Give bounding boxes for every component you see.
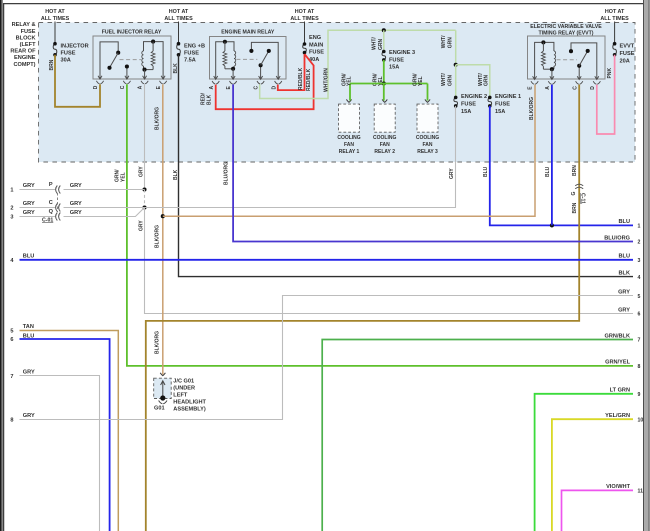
switch arm (fuel injector relay) bbox=[110, 53, 119, 68]
svg-text:INJECTOR: INJECTOR bbox=[61, 44, 89, 50]
svg-text:FUSE: FUSE bbox=[184, 51, 199, 57]
svg-text:BLU: BLU bbox=[483, 166, 489, 177]
pin A (EVVT relay) bbox=[550, 76, 554, 79]
wire feed down from HOT AT x=614.6 bbox=[614, 22, 616, 44]
junction connector J/C G01 box bbox=[154, 378, 172, 398]
wire GRY from fuel injector relay pin A down to node row1 bbox=[144, 84, 146, 189]
wire WHT/GRN to ENGINE 1 fuse bbox=[456, 65, 490, 98]
svg-text:BRN: BRN bbox=[572, 202, 578, 213]
svg-text:C: C bbox=[572, 86, 578, 90]
svg-text:WHT/: WHT/ bbox=[441, 35, 447, 48]
pin A (fuel injector relay) bbox=[143, 76, 147, 79]
svg-text:YEL/GRN: YEL/GRN bbox=[605, 413, 630, 419]
svg-text:ENGINE 3: ENGINE 3 bbox=[389, 50, 415, 56]
svg-text:FUSE: FUSE bbox=[309, 50, 324, 56]
svg-text:8: 8 bbox=[638, 364, 641, 370]
fuse ENGINE 1 FUSE 15A bbox=[488, 97, 492, 106]
svg-text:GRN: GRN bbox=[483, 75, 489, 87]
svg-text:FUSE: FUSE bbox=[620, 51, 635, 57]
cooling fan relay 2 (dashed box) bbox=[374, 104, 395, 132]
svg-text:FAN: FAN bbox=[380, 142, 390, 148]
wire PNK from EVVT fuse to EVVT pin D bbox=[597, 55, 615, 134]
svg-text:C-11: C-11 bbox=[580, 193, 586, 204]
svg-text:A: A bbox=[545, 86, 551, 90]
node: BLK/ORG junction with EVVT BLK/ORG bbox=[161, 214, 165, 218]
svg-text:GRY: GRY bbox=[70, 183, 82, 189]
svg-text:GRN/YEL: GRN/YEL bbox=[605, 360, 630, 366]
svg-text:BLU/ORG: BLU/ORG bbox=[604, 235, 630, 241]
svg-text:WHT/: WHT/ bbox=[372, 37, 378, 50]
switch contact from pin D (engine main relay) bbox=[251, 42, 278, 79]
svg-text:RED/BLK: RED/BLK bbox=[306, 68, 312, 91]
svg-text:GRY: GRY bbox=[23, 201, 35, 207]
wire GRN/YEL from fuel injector relay pin C down, to right row 8 bbox=[127, 84, 633, 366]
mechanical linkage dashes (fuel injector relay) bbox=[120, 59, 142, 61]
pin D (engine main relay) bbox=[276, 76, 280, 79]
wire BLK/ORG from EVVT pin E down and left bbox=[163, 85, 535, 217]
relay coil (fuel injector relay) bbox=[144, 42, 164, 79]
svg-text:C-01: C-01 bbox=[42, 217, 53, 223]
svg-text:(UNDER: (UNDER bbox=[173, 386, 195, 392]
wire YEL/GRN from page bottom up to right row 10 bbox=[552, 419, 633, 531]
svg-text:GRN: GRN bbox=[447, 37, 453, 49]
svg-text:C: C bbox=[120, 85, 126, 89]
node: GRY junction row 1 bbox=[142, 187, 146, 191]
pin A (engine main relay) bbox=[214, 76, 218, 79]
svg-text:7.5A: 7.5A bbox=[184, 58, 196, 64]
svg-text:ENGINE MAIN RELAY: ENGINE MAIN RELAY bbox=[221, 30, 275, 36]
svg-text:8: 8 bbox=[10, 418, 13, 424]
pin C (EVVT relay) bbox=[577, 76, 581, 79]
wire WHT/GRN rail down at right to node bbox=[455, 30, 457, 65]
wire GRN/YEL fan header horizontal bbox=[350, 83, 428, 85]
svg-text:A: A bbox=[138, 85, 144, 89]
svg-text:RELAY &: RELAY & bbox=[12, 22, 36, 28]
fuse INJECTOR FUSE 30A bbox=[53, 44, 57, 55]
svg-text:ALL TIMES: ALL TIMES bbox=[41, 16, 70, 22]
wire GRN/YEL drop to cooling fan relay 2 bbox=[383, 84, 385, 101]
wire VIO/WHT from page bottom up to right row 11 bbox=[562, 490, 634, 531]
pin C (engine main relay) bbox=[259, 76, 263, 79]
pin D (fuel injector relay) bbox=[98, 76, 102, 79]
switch contact pin C pivot (EVVT relay) bbox=[578, 66, 580, 79]
svg-text:BLK/ORG: BLK/ORG bbox=[155, 225, 161, 248]
svg-text:VIO/WHT: VIO/WHT bbox=[606, 484, 631, 490]
svg-text:30A: 30A bbox=[61, 58, 71, 64]
svg-text:GRN: GRN bbox=[447, 75, 453, 87]
relay & fuse block (dashed box) bbox=[39, 23, 636, 163]
svg-text:GRY: GRY bbox=[618, 290, 630, 296]
svg-text:REAR OF: REAR OF bbox=[10, 49, 36, 55]
wire BLU from ENGINE 1 fuse down to right row 1 bbox=[490, 106, 633, 225]
relay coil (EVVT relay) bbox=[535, 42, 554, 79]
svg-text:GRN: GRN bbox=[378, 39, 384, 51]
cooling fan relay 3 (dashed box) bbox=[417, 104, 438, 132]
svg-text:ENG: ENG bbox=[309, 35, 321, 41]
svg-text:EVVT: EVVT bbox=[620, 44, 635, 50]
svg-text:GRY: GRY bbox=[23, 183, 35, 189]
svg-text:YEL: YEL bbox=[121, 172, 127, 182]
pin E (engine main relay) bbox=[231, 76, 235, 79]
pin A stub (fuel injector relay) bbox=[144, 70, 146, 79]
svg-text:D: D bbox=[590, 86, 596, 90]
svg-text:COMPT): COMPT) bbox=[13, 62, 35, 68]
svg-text:YEL: YEL bbox=[347, 76, 353, 86]
wire RED/BLK from ENG MAIN fuse to engine main relay pin A bbox=[216, 54, 314, 109]
wire GRY dashed segment between row1 and row2 nodes bbox=[144, 190, 146, 208]
node: WHT/GRN junction to ENGINE 1/2 fuses bbox=[454, 63, 458, 67]
switch arm (engine main relay) bbox=[261, 51, 269, 65]
svg-text:J/C G01: J/C G01 bbox=[173, 379, 194, 385]
switch contact from pin D (fuel injector relay) bbox=[100, 42, 118, 79]
wire feed down from HOT AT x=55 bbox=[54, 22, 56, 44]
svg-text:1: 1 bbox=[10, 188, 13, 194]
svg-text:FUEL INJECTOR RELAY: FUEL INJECTOR RELAY bbox=[102, 30, 162, 36]
wire GRY from ENGINE 2 fuse down then left to row-2 node bbox=[145, 106, 456, 208]
svg-text:7: 7 bbox=[638, 338, 641, 344]
svg-text:PNK: PNK bbox=[607, 68, 613, 79]
switch contact pin C pivot (engine main relay) bbox=[260, 65, 262, 79]
fuse ENGINE 3 FUSE 15A bbox=[382, 52, 386, 60]
svg-text:FAN: FAN bbox=[344, 142, 354, 148]
svg-text:BLK: BLK bbox=[173, 169, 179, 180]
wire LT GRN from page bottom up to right row 9 bbox=[535, 394, 633, 531]
svg-text:HOT AT: HOT AT bbox=[169, 9, 189, 15]
ground node G01 bbox=[160, 395, 165, 400]
wire GRN/YEL below ENGINE 3 fuse to fan relay header bbox=[383, 60, 385, 84]
svg-text:HEADLIGHT: HEADLIGHT bbox=[173, 400, 206, 406]
node: GRY junction row 2 bbox=[142, 205, 146, 209]
connector C-01 dashed link bbox=[57, 193, 59, 212]
svg-text:FAN: FAN bbox=[423, 142, 433, 148]
svg-text:3: 3 bbox=[638, 258, 641, 264]
wire GRN/YEL drop to cooling fan relay 1 bbox=[349, 84, 351, 101]
svg-text:GRY: GRY bbox=[618, 307, 630, 313]
svg-text:BLOCK: BLOCK bbox=[16, 35, 36, 41]
page right scrollbar bbox=[643, 0, 644, 531]
svg-text:ENGINE: ENGINE bbox=[14, 55, 36, 61]
node: BLU junction with EVVT pin A wire bbox=[550, 223, 554, 227]
svg-text:11: 11 bbox=[638, 489, 644, 495]
svg-text:D: D bbox=[93, 85, 99, 89]
svg-text:BRN: BRN bbox=[572, 165, 578, 176]
svg-text:WHT/GRN: WHT/GRN bbox=[323, 68, 329, 92]
svg-text:GRY: GRY bbox=[70, 201, 82, 207]
svg-text:G01: G01 bbox=[154, 405, 165, 411]
svg-text:ELECTRIC VARIABLE VALVE: ELECTRIC VARIABLE VALVE bbox=[530, 24, 602, 30]
wire BLK/ORG from fuel injector relay pin E down to J/C G01 bbox=[162, 84, 164, 374]
pin C (fuel injector relay) bbox=[125, 76, 129, 79]
svg-text:15A: 15A bbox=[389, 65, 399, 71]
svg-text:YEL: YEL bbox=[418, 76, 424, 86]
svg-text:FUSE: FUSE bbox=[389, 57, 404, 63]
svg-text:BLK: BLK bbox=[619, 270, 631, 276]
svg-text:HOT AT: HOT AT bbox=[605, 9, 625, 15]
wire RED/BLK from ENG MAIN fuse to engine main relay pin D bbox=[278, 54, 305, 90]
page left edge bar bbox=[0, 0, 2, 531]
svg-text:5: 5 bbox=[638, 294, 641, 300]
mechanical linkage dashes (EVVT relay) bbox=[557, 59, 578, 61]
svg-text:D: D bbox=[271, 86, 277, 90]
pin A stub (EVVT relay) bbox=[551, 69, 553, 79]
svg-text:FUSE: FUSE bbox=[61, 51, 76, 57]
svg-text:3: 3 bbox=[10, 215, 13, 221]
svg-text:FUSE: FUSE bbox=[461, 102, 476, 108]
svg-text:ENG +B: ENG +B bbox=[184, 44, 205, 50]
svg-text:BLK/ORG: BLK/ORG bbox=[155, 331, 161, 354]
wire WHT/GRN from engine main relay pin C up to rail bbox=[260, 30, 456, 98]
wire BRN from EVVT pin C down, across, off page bottom bbox=[146, 85, 579, 531]
svg-text:GRY: GRY bbox=[139, 220, 145, 231]
svg-text:GRY: GRY bbox=[70, 210, 82, 216]
svg-text:1: 1 bbox=[638, 224, 641, 230]
wire BRN from injector fuse to fuel injector relay pin D bbox=[55, 55, 100, 107]
svg-text:BLK/ORG: BLK/ORG bbox=[529, 97, 535, 120]
svg-text:C: C bbox=[254, 86, 260, 90]
svg-text:RED/BLK: RED/BLK bbox=[298, 67, 304, 90]
wire GRN/BLK from page bottom up to right row 7 bbox=[322, 340, 633, 531]
svg-text:BLK: BLK bbox=[207, 94, 213, 105]
svg-text:COOLING: COOLING bbox=[416, 135, 439, 141]
pin E (fuel injector relay) bbox=[161, 76, 165, 79]
mechanical linkage dashes (engine main relay) bbox=[236, 58, 257, 60]
svg-text:2: 2 bbox=[10, 206, 13, 212]
svg-text:6: 6 bbox=[638, 312, 641, 318]
switch contact from pin D (EVVT relay) bbox=[571, 43, 597, 79]
svg-text:HOT AT: HOT AT bbox=[295, 9, 315, 15]
pin E stub (engine main relay) bbox=[232, 69, 234, 79]
svg-text:G: G bbox=[571, 192, 577, 196]
svg-text:9: 9 bbox=[638, 392, 641, 398]
svg-text:LT GRN: LT GRN bbox=[610, 388, 630, 394]
svg-text:20A: 20A bbox=[620, 58, 630, 64]
svg-text:ALL TIMES: ALL TIMES bbox=[600, 16, 629, 22]
node: GRN/YEL fan header junction bbox=[382, 81, 386, 85]
svg-text:2: 2 bbox=[638, 240, 641, 246]
svg-text:FUSE: FUSE bbox=[495, 102, 510, 108]
fuse EVVT FUSE 20A bbox=[613, 44, 617, 55]
svg-text:RELAY 2: RELAY 2 bbox=[374, 149, 395, 155]
svg-text:4: 4 bbox=[638, 275, 641, 281]
svg-text:C: C bbox=[49, 200, 53, 206]
svg-text:TAN: TAN bbox=[23, 324, 34, 330]
svg-text:RELAY 1: RELAY 1 bbox=[339, 149, 360, 155]
svg-text:HOT AT: HOT AT bbox=[45, 9, 65, 15]
svg-text:BRN: BRN bbox=[49, 59, 55, 70]
switch arm (EVVT relay) bbox=[579, 51, 588, 66]
svg-text:10: 10 bbox=[638, 417, 644, 423]
wire BLU/ORG from engine main relay pin E down to right row 2 bbox=[233, 84, 633, 241]
svg-text:BLK: BLK bbox=[173, 63, 179, 74]
svg-text:BLU: BLU bbox=[619, 219, 631, 225]
svg-text:GRY: GRY bbox=[23, 369, 35, 375]
wire BLK from ENG +B fuse down to right row 4 bbox=[179, 55, 634, 277]
svg-text:GRY: GRY bbox=[23, 413, 35, 419]
svg-text:GRY: GRY bbox=[23, 210, 35, 216]
svg-text:15A: 15A bbox=[495, 109, 505, 115]
svg-text:WHT/: WHT/ bbox=[441, 73, 447, 86]
svg-text:P: P bbox=[49, 182, 53, 188]
svg-text:COOLING: COOLING bbox=[373, 135, 396, 141]
svg-text:Q: Q bbox=[49, 209, 54, 215]
svg-text:ALL TIMES: ALL TIMES bbox=[290, 16, 319, 22]
svg-text:GRY: GRY bbox=[139, 166, 145, 177]
wire WHT/GRN to ENGINE 2 fuse bbox=[455, 65, 457, 98]
svg-text:GRY: GRY bbox=[449, 168, 455, 179]
svg-text:BLU/ORG: BLU/ORG bbox=[224, 162, 230, 185]
svg-text:BLU: BLU bbox=[619, 254, 631, 260]
relay coil (engine main relay) bbox=[216, 42, 234, 79]
svg-text:GRN/BLK: GRN/BLK bbox=[605, 333, 630, 339]
svg-text:ALL TIMES: ALL TIMES bbox=[164, 16, 193, 22]
svg-text:BLU: BLU bbox=[23, 253, 35, 259]
svg-text:A: A bbox=[209, 86, 215, 90]
inline connector C-11 pin G on BRN wire bbox=[575, 184, 583, 186]
wire BLU from EVVT pin A down to node bbox=[551, 85, 553, 226]
pin D (EVVT relay) bbox=[595, 76, 599, 79]
pin E (EVVT relay) bbox=[533, 76, 537, 79]
svg-text:LEFT: LEFT bbox=[173, 393, 188, 399]
svg-text:COOLING: COOLING bbox=[337, 135, 360, 141]
fuse ENG MAIN FUSE 40A bbox=[303, 44, 307, 53]
svg-text:ENGINE 2: ENGINE 2 bbox=[461, 94, 487, 100]
svg-text:RELAY 3: RELAY 3 bbox=[417, 149, 438, 155]
ground G01 lead inside J/C box bbox=[162, 381, 164, 398]
switch contact pin C (fuel injector relay) bbox=[126, 67, 128, 79]
svg-text:ENGINE 1: ENGINE 1 bbox=[495, 94, 521, 100]
svg-text:6: 6 bbox=[10, 337, 13, 343]
wire WHT/GRN drop to ENGINE 3 fuse bbox=[383, 30, 385, 51]
svg-text:BLU: BLU bbox=[545, 166, 551, 177]
wire GRY continues down then right to right row 6 bbox=[145, 208, 634, 314]
fuse ENGINE 2 FUSE 15A bbox=[454, 97, 458, 106]
cooling fan relay 1 (dashed box) bbox=[339, 104, 360, 132]
svg-text:MAIN: MAIN bbox=[309, 42, 323, 48]
svg-text:ASSEMBLY): ASSEMBLY) bbox=[173, 407, 206, 413]
svg-text:BLK/ORG: BLK/ORG bbox=[155, 107, 161, 130]
svg-text:FUSE: FUSE bbox=[21, 29, 36, 35]
fuse ENG +B FUSE 7.5A bbox=[177, 44, 181, 55]
svg-text:(LEFT: (LEFT bbox=[20, 42, 36, 48]
wire GRN/YEL drop to cooling fan relay 3 bbox=[427, 84, 429, 101]
wire feed down from HOT AT x=304.5 bbox=[304, 22, 306, 45]
node: WHT/GRN rail junction bbox=[382, 28, 386, 32]
svg-text:15A: 15A bbox=[461, 109, 471, 115]
wire feed down from HOT AT x=178.5 bbox=[178, 22, 180, 44]
svg-text:5: 5 bbox=[10, 328, 13, 334]
svg-text:7: 7 bbox=[10, 374, 13, 380]
